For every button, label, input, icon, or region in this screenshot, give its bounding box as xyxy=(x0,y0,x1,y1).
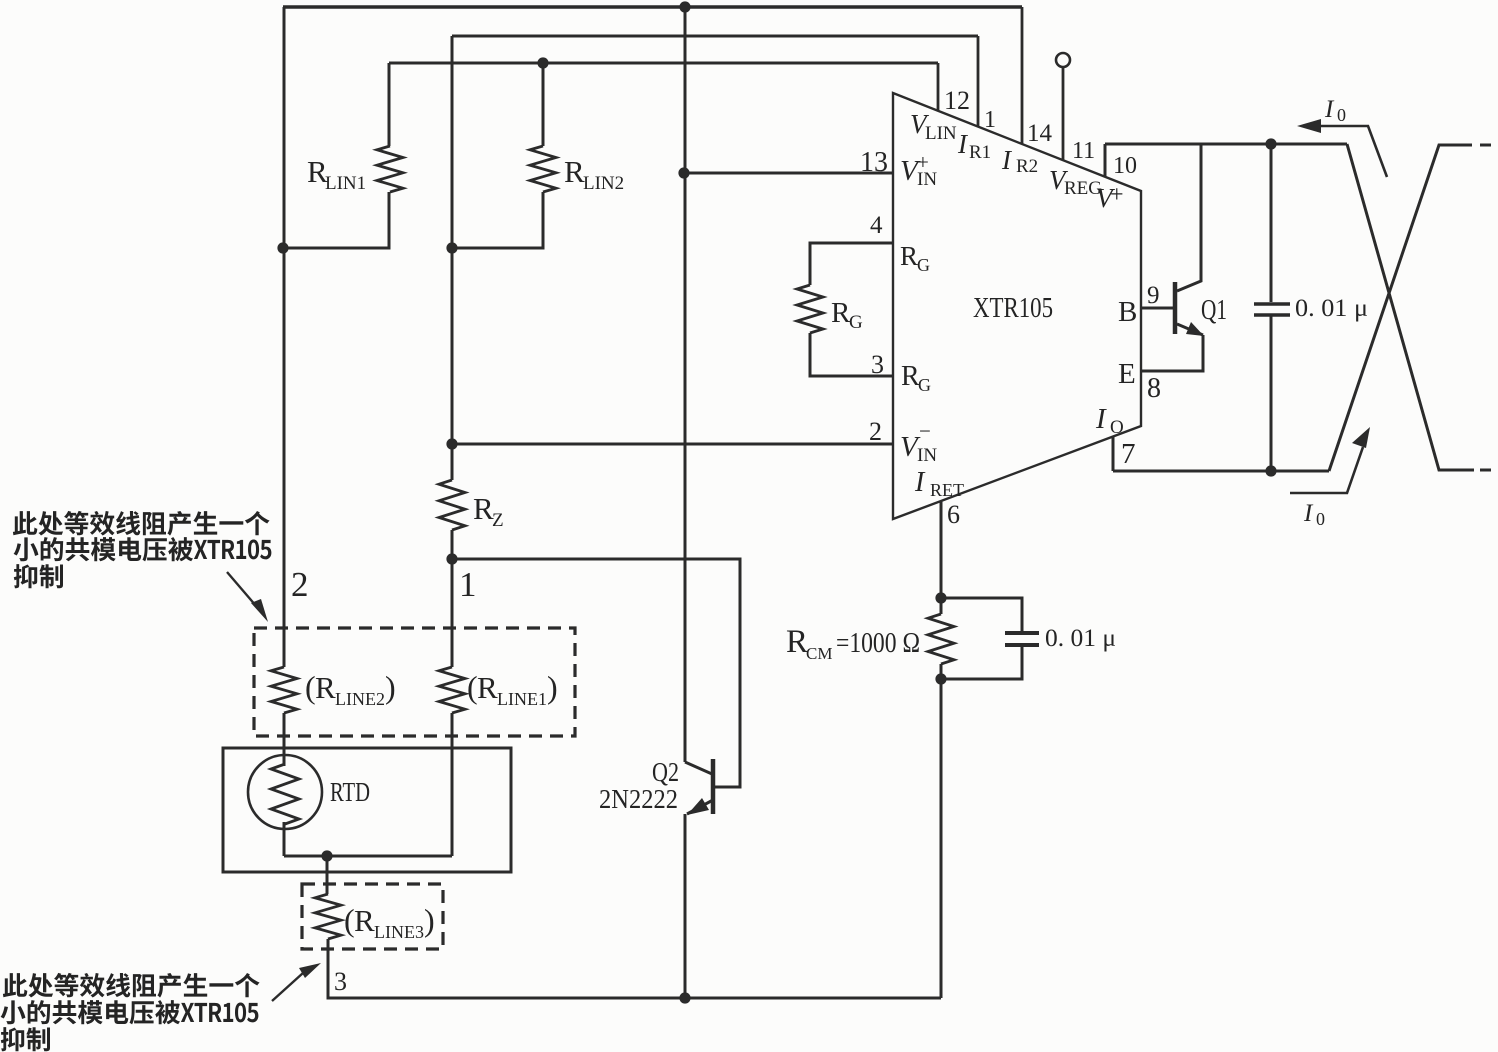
svg-text:LINE1: LINE1 xyxy=(497,689,547,709)
wire pin1 stub xyxy=(977,36,980,127)
svg-text:RTD: RTD xyxy=(330,777,370,807)
label RZ xyxy=(473,491,504,531)
pin name IR2 xyxy=(1001,145,1038,177)
svg-text:R: R xyxy=(354,903,375,938)
label RLIN2 xyxy=(564,154,624,194)
wire pin7 IO lead xyxy=(1113,437,1329,471)
resistor RZ xyxy=(439,480,465,530)
node A top rail xyxy=(679,1,690,12)
pin 12 number xyxy=(944,86,970,115)
pin 14 number xyxy=(1027,120,1053,147)
node RLIN2 bottom xyxy=(446,242,457,253)
svg-text:8: 8 xyxy=(1147,373,1161,404)
node RLIN2 top xyxy=(537,57,548,68)
node 1 label xyxy=(459,565,477,604)
pin name VLIN xyxy=(910,109,957,144)
pin name IRET xyxy=(914,467,964,500)
annotation text top (common-mode note) xyxy=(13,511,272,588)
svg-text:0: 0 xyxy=(1337,105,1346,125)
svg-text:11: 11 xyxy=(1072,138,1095,164)
resistor RLINE1 xyxy=(439,667,465,713)
svg-text:E: E xyxy=(1118,358,1136,390)
svg-text:LINE3: LINE3 xyxy=(374,922,424,942)
resistor RLIN2 xyxy=(530,146,556,192)
label RG resistor xyxy=(831,297,863,333)
pin name V+ xyxy=(1096,182,1124,213)
svg-text:R2: R2 xyxy=(1016,156,1038,177)
wire top supply rail (pin14 net) xyxy=(283,5,1022,8)
svg-text:IN: IN xyxy=(917,445,937,466)
svg-text:R: R xyxy=(477,670,498,705)
pin name RG bottom xyxy=(901,361,931,395)
svg-text:R: R xyxy=(786,624,808,660)
svg-text:7: 7 xyxy=(1121,438,1136,470)
wire pin14 stub xyxy=(1021,7,1024,144)
svg-text:O: O xyxy=(1110,417,1124,438)
node node 1 xyxy=(446,553,457,564)
label IO top xyxy=(1324,96,1346,125)
terminal pin11 open circle xyxy=(1056,53,1070,67)
label (RLINE1) xyxy=(467,669,558,709)
svg-text:): ) xyxy=(424,902,435,938)
svg-text:LIN1: LIN1 xyxy=(325,173,366,194)
label IO bottom xyxy=(1303,500,1325,529)
wire Q2 collector vertical xyxy=(684,7,687,762)
svg-text:Q1: Q1 xyxy=(1201,294,1227,326)
svg-text:2: 2 xyxy=(869,417,882,446)
pin 6 number xyxy=(947,500,960,529)
op-amp U1 XTR105 outline xyxy=(893,93,1141,519)
svg-text:XTR105: XTR105 xyxy=(973,292,1053,324)
label Q2 xyxy=(652,757,679,787)
pin 10 number xyxy=(1113,153,1137,179)
pin 4 number xyxy=(870,212,883,239)
svg-text:LINE2: LINE2 xyxy=(335,689,385,709)
svg-text:IN: IN xyxy=(917,169,937,190)
svg-text:CM: CM xyxy=(806,644,832,663)
svg-text:3: 3 xyxy=(871,350,884,379)
svg-text:RET: RET xyxy=(930,480,964,500)
wire RTD bottom link xyxy=(284,855,452,858)
label XTR105 xyxy=(973,292,1053,324)
wire RLIN2 branch xyxy=(452,63,543,248)
svg-text:G: G xyxy=(918,375,931,395)
node RLIN1 bottom xyxy=(277,242,288,253)
label 0.01u RCM cap xyxy=(1045,625,1116,652)
pin name IO xyxy=(1095,403,1124,438)
pin name RG top xyxy=(900,241,930,275)
wire Q2 emitter vertical xyxy=(684,814,687,998)
RTD sensor xyxy=(248,755,322,829)
svg-text:G: G xyxy=(917,255,930,275)
label RTD xyxy=(330,777,370,807)
svg-text:R1: R1 xyxy=(969,142,991,163)
resistor RLINE2 xyxy=(271,667,297,713)
label 2N2222 xyxy=(599,784,678,814)
resistor RG xyxy=(797,285,823,333)
node Q2 emitter return xyxy=(679,992,690,1003)
dashed box line resistances 1-2 xyxy=(254,628,575,736)
wire RLIN1 branch xyxy=(283,63,389,248)
wire pin13 VIN+ lead xyxy=(684,172,893,175)
box RTD enclosure xyxy=(223,748,511,872)
svg-text:14: 14 xyxy=(1027,120,1053,147)
svg-text:3: 3 xyxy=(334,967,347,996)
wire left vertical (node 2 line) xyxy=(283,7,286,856)
annotation text bottom (common-mode note) xyxy=(1,973,260,1051)
wire pin12 stub xyxy=(937,63,940,111)
arrow annotation bottom xyxy=(272,963,321,1001)
node 3 label xyxy=(334,967,347,996)
svg-text:R: R xyxy=(564,154,585,189)
resistor RLIN1 xyxy=(377,146,403,192)
node IO return xyxy=(1265,465,1276,476)
svg-text:=1000 Ω: =1000 Ω xyxy=(836,628,920,659)
wire center vertical (node 1 line) xyxy=(451,36,454,856)
svg-text:0. 01 μ: 0. 01 μ xyxy=(1045,625,1116,652)
svg-text:): ) xyxy=(547,669,558,705)
svg-text:10: 10 xyxy=(1113,153,1137,179)
svg-text:R: R xyxy=(315,670,336,705)
svg-text:+: + xyxy=(1110,182,1124,208)
wire Q1 collector xyxy=(1177,144,1201,291)
svg-text:2: 2 xyxy=(291,565,309,604)
pin name IR1 xyxy=(957,129,991,163)
svg-text:2N2222: 2N2222 xyxy=(599,784,678,814)
svg-text:LIN: LIN xyxy=(925,123,957,144)
svg-text:I: I xyxy=(914,467,926,498)
wire node3 tap from RTD box xyxy=(326,856,329,894)
node VIN+ tap xyxy=(678,167,689,178)
svg-text:13: 13 xyxy=(860,147,888,178)
wire second rail (pin1 net) xyxy=(452,35,978,38)
svg-text:−: − xyxy=(919,419,931,443)
label Q1 xyxy=(1201,294,1227,326)
node V+ out xyxy=(1265,138,1276,149)
pin 8 number xyxy=(1147,373,1161,404)
svg-text:9: 9 xyxy=(1147,282,1160,309)
pin name E xyxy=(1118,358,1136,390)
wire output loop crossover xyxy=(1329,144,1498,471)
label (RLINE2) xyxy=(305,669,396,709)
svg-text:G: G xyxy=(849,312,863,333)
resistor RCM xyxy=(928,614,954,664)
pin name B xyxy=(1118,296,1137,328)
svg-text:0: 0 xyxy=(1316,509,1325,529)
pin 2 number xyxy=(869,417,882,446)
node 2 label xyxy=(291,565,309,604)
dashed box line resistance 3 xyxy=(302,884,443,949)
transistor Q2 2N2222 xyxy=(685,759,713,815)
arrow IO bottom xyxy=(1290,427,1370,493)
svg-text:LIN2: LIN2 xyxy=(583,173,624,194)
wire Q1 emitter to pin8 xyxy=(1141,335,1203,371)
pin name VIN+ xyxy=(900,150,937,190)
node RTD bottom xyxy=(321,850,332,861)
svg-text:4: 4 xyxy=(870,212,883,239)
svg-text:R: R xyxy=(473,491,494,526)
svg-text:Q2: Q2 xyxy=(652,757,679,787)
wire third rail (pin12 net) xyxy=(389,62,938,65)
node RCM top xyxy=(935,592,946,603)
svg-text:R: R xyxy=(900,241,918,271)
label RCM = 1000 ohm xyxy=(786,624,920,663)
node VIN- tap xyxy=(446,438,457,449)
svg-text:I: I xyxy=(1095,403,1107,435)
svg-text:Z: Z xyxy=(492,510,504,531)
pin 9 number xyxy=(1147,282,1160,309)
wire pin11 stub xyxy=(1062,67,1065,160)
node RCM bottom xyxy=(935,673,946,684)
wire pin6 IRET lead xyxy=(940,501,943,998)
transistor Q1 xyxy=(1141,282,1204,336)
svg-text:6: 6 xyxy=(947,500,960,529)
pin 7 number xyxy=(1121,438,1136,470)
svg-text:): ) xyxy=(385,669,396,705)
wire pin10 V+ rail xyxy=(1105,144,1347,177)
svg-text:12: 12 xyxy=(944,86,970,115)
svg-text:1: 1 xyxy=(984,107,996,133)
pin name VREG xyxy=(1049,165,1102,199)
label (RLINE3) xyxy=(344,902,435,942)
pin 3 number xyxy=(871,350,884,379)
pin 11 number xyxy=(1072,138,1095,164)
wire pin2 VIN- lead xyxy=(452,443,893,446)
resistor RLINE3 xyxy=(315,894,341,939)
svg-text:B: B xyxy=(1118,296,1137,328)
svg-text:1: 1 xyxy=(459,565,477,604)
wire bottom return (node 3 net) xyxy=(328,939,941,998)
wire RG loop pin4 pin3 xyxy=(810,243,893,376)
svg-text:0. 01 μ: 0. 01 μ xyxy=(1295,295,1368,322)
pin 1 number xyxy=(984,107,996,133)
arrow IO top xyxy=(1297,119,1387,177)
capacitor across RCM 0.01u xyxy=(1005,633,1039,645)
svg-text:R: R xyxy=(831,297,851,329)
pin name VIN- xyxy=(900,419,937,466)
arrow annotation top xyxy=(227,572,268,622)
label RLIN1 xyxy=(307,154,366,194)
pin 13 number xyxy=(860,147,888,178)
wire RCM capacitor branch xyxy=(941,598,1022,679)
label 0.01u output cap xyxy=(1295,295,1368,322)
capacitor output 0.01u xyxy=(1254,144,1290,471)
wire node1 to Q2 base xyxy=(452,559,740,787)
